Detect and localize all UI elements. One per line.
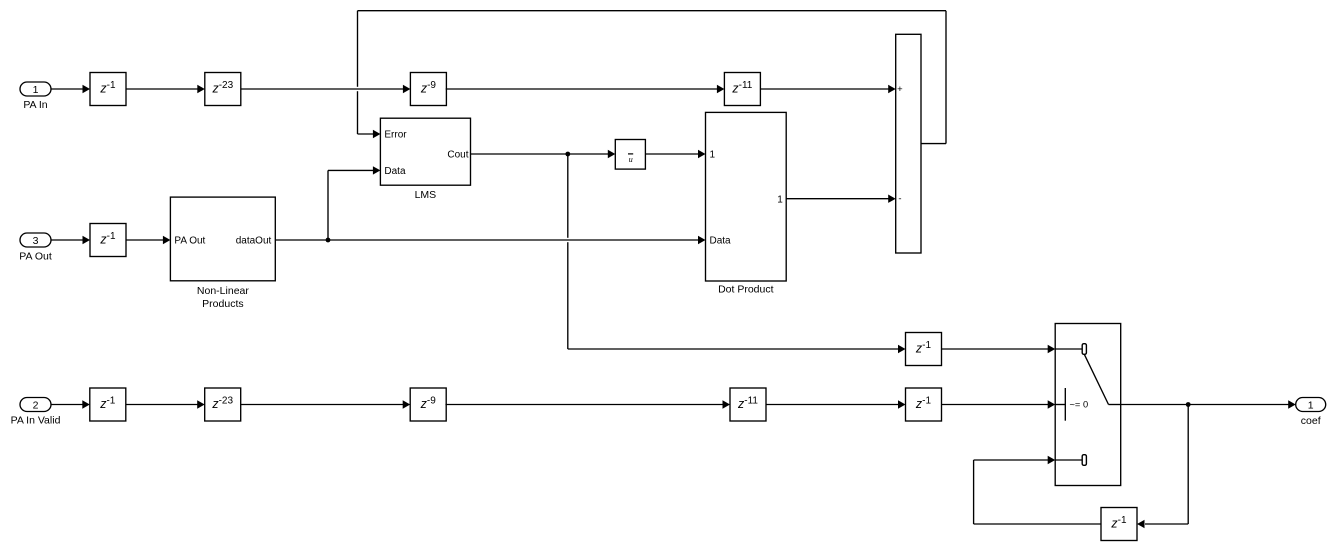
svg-text:1: 1 <box>1308 399 1314 411</box>
svg-text:Error: Error <box>384 130 407 141</box>
svg-text:1: 1 <box>777 194 783 205</box>
svg-text:Cout: Cout <box>447 150 468 161</box>
svg-text:coef: coef <box>1301 415 1321 427</box>
svg-text:Dot Product: Dot Product <box>718 284 774 296</box>
svg-text:-: - <box>898 194 901 205</box>
svg-text:+: + <box>897 84 903 95</box>
svg-text:PA In: PA In <box>23 99 47 111</box>
svg-text:dataOut: dataOut <box>236 236 272 247</box>
svg-text:LMS: LMS <box>415 189 437 201</box>
svg-text:~= 0: ~= 0 <box>1070 399 1089 409</box>
svg-text:1: 1 <box>710 150 716 161</box>
svg-text:3: 3 <box>33 235 39 247</box>
svg-text:Data: Data <box>384 166 406 177</box>
svg-text:Non-Linear: Non-Linear <box>197 285 249 297</box>
svg-text:Data: Data <box>710 236 732 247</box>
svg-text:1: 1 <box>33 84 39 96</box>
svg-text:u: u <box>629 155 633 164</box>
svg-text:PA Out: PA Out <box>19 251 52 263</box>
svg-text:Products: Products <box>202 298 243 310</box>
svg-text:2: 2 <box>33 399 39 411</box>
svg-text:PA In Valid: PA In Valid <box>11 414 61 426</box>
svg-text:PA Out: PA Out <box>174 236 205 247</box>
